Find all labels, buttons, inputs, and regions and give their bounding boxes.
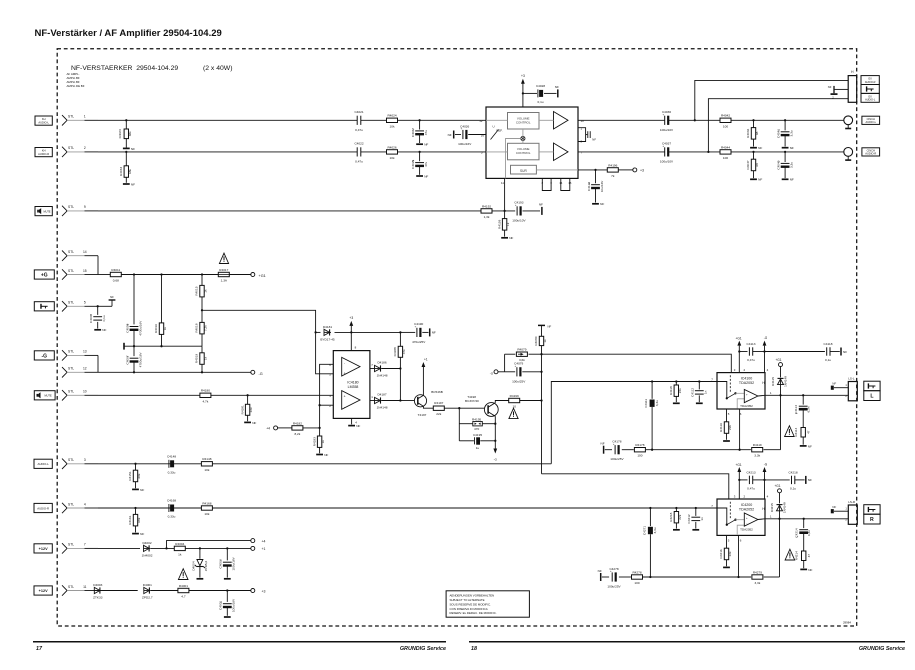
ground below R4214 <box>800 568 812 572</box>
capacitor C4148 <box>167 454 176 474</box>
svg-text:C4114: C4114 <box>794 405 798 414</box>
svg-text:C4212: C4212 <box>687 514 691 523</box>
svg-text:C4008: C4008 <box>89 314 93 323</box>
resistor R4016 <box>154 275 167 347</box>
cinch jack AUDIO-R <box>844 148 853 161</box>
label box EX AUDIO-R <box>861 76 879 85</box>
zener diode D4003 <box>93 583 138 600</box>
svg-text:R4188: R4188 <box>393 347 397 356</box>
svg-text:D4187: D4187 <box>377 393 386 397</box>
svg-text:3: 3 <box>84 458 86 462</box>
svg-text:100u/10V: 100u/10V <box>512 218 526 222</box>
svg-text:-: - <box>746 398 747 402</box>
capacitor C4195 <box>459 433 495 450</box>
svg-text:NF: NF <box>324 453 328 457</box>
svg-text:4700u/16V: 4700u/16V <box>138 320 142 336</box>
svg-text:R4024: R4024 <box>387 114 396 118</box>
capacitor C4114 zobel <box>794 395 811 427</box>
resistor R4197 <box>433 401 444 416</box>
svg-text:100u/16V: 100u/16V <box>232 598 236 612</box>
diode D4002 <box>142 541 175 558</box>
svg-text:18: 18 <box>471 646 477 652</box>
svg-text:AENDERUNGEN VORBEHALTEN: AENDERUNGEN VORBEHALTEN <box>450 594 495 598</box>
svg-text:+G1: +G1 <box>774 484 780 488</box>
svg-text:100u/16V: 100u/16V <box>458 142 472 146</box>
IC4100 pin5 resistor R4116 <box>719 409 732 440</box>
svg-text:+12V: +12V <box>39 547 48 551</box>
resistor R4181 <box>240 395 253 421</box>
svg-text:+G: +G <box>41 272 48 278</box>
svg-text:0,33u: 0,33u <box>168 470 176 474</box>
capacitor C4168 <box>167 499 176 519</box>
wire STL3 <box>98 463 551 465</box>
resistor R4047 <box>746 151 759 178</box>
resistor R4183 <box>312 428 325 453</box>
svg-text:0,1u: 0,1u <box>825 358 831 362</box>
+G1 terminal <box>229 273 265 279</box>
svg-text:R4079: R4079 <box>517 348 526 352</box>
capacitor C4079 <box>505 354 542 383</box>
svg-text:22k: 22k <box>249 407 253 412</box>
IC4200 pin6 wire <box>738 535 740 577</box>
footer rule right <box>469 641 905 643</box>
connector +12V b <box>34 586 52 595</box>
capacitor C4022 <box>354 142 363 164</box>
speaker return cap R <box>831 505 849 514</box>
svg-text:R4044: R4044 <box>721 145 730 149</box>
wire STL2 input <box>98 151 486 153</box>
svg-text:14: 14 <box>83 250 87 254</box>
svg-text:68k: 68k <box>128 169 132 174</box>
ground below D4004 <box>197 578 204 580</box>
svg-text:C4168: C4168 <box>167 499 176 503</box>
svg-text:R4195: R4195 <box>472 418 481 422</box>
SUR output wire <box>536 169 607 171</box>
ground below C4027 <box>416 143 428 147</box>
svg-text:MUTE: MUTE <box>44 210 51 213</box>
svg-text:NF: NF <box>424 143 428 147</box>
ground below C4212 <box>692 529 699 531</box>
svg-text:C4040: C4040 <box>777 160 781 169</box>
capacitor C4190 <box>400 322 428 344</box>
IC4200 internals <box>717 502 744 535</box>
label box L <box>864 391 880 401</box>
svg-text:C4218: C4218 <box>788 470 797 474</box>
NF terminal right of C4190 <box>430 328 436 336</box>
svg-text:GRUNDIG Service: GRUNDIG Service <box>400 646 446 652</box>
svg-text:NF-Verstärker / AF Amplifier 2: NF-Verstärker / AF Amplifier 29504-104.2… <box>35 28 222 39</box>
buffer amp 1 <box>486 112 568 130</box>
wire feedback riser L <box>780 395 782 449</box>
wire pin2 stub <box>320 404 334 406</box>
svg-text:11: 11 <box>501 181 504 185</box>
svg-text:+4: +4 <box>266 427 270 431</box>
resistor R4192 <box>481 204 492 219</box>
volume IC pin 11 wire <box>504 178 506 211</box>
IC4100 pin labels <box>711 368 772 416</box>
svg-text:4,7k: 4,7k <box>202 399 208 403</box>
svg-text:2: 2 <box>84 146 86 150</box>
connector pin STL 4 <box>62 502 98 513</box>
svg-text:1N4148: 1N4148 <box>377 405 388 409</box>
ground below R4216 <box>723 566 730 568</box>
svg-text:-G: -G <box>494 457 498 461</box>
svg-text:+1: +1 <box>262 547 266 551</box>
svg-text:AUDIO-L: AUDIO-L <box>37 462 49 466</box>
volume control block 2 <box>508 143 540 160</box>
pins 1-8 external bracket with capacitor <box>578 128 596 142</box>
svg-text:C4036: C4036 <box>662 110 671 114</box>
connector +12V a <box>34 544 52 553</box>
svg-text:(2 x 40W): (2 x 40W) <box>203 65 232 72</box>
svg-text:10k: 10k <box>204 468 209 472</box>
svg-text:1n: 1n <box>700 517 704 521</box>
transistor T4198 <box>465 395 498 416</box>
svg-text:470u/25V: 470u/25V <box>412 340 426 344</box>
capacitor C4041 <box>777 119 794 146</box>
node row1 / capacitor C4027 <box>411 119 428 143</box>
ground below C4041 <box>782 146 794 150</box>
svg-text:12: 12 <box>479 119 483 123</box>
svg-text:STL: STL <box>68 301 74 305</box>
SUR block <box>511 165 537 174</box>
svg-text:0,1u: 0,1u <box>537 100 543 104</box>
op-amp A <box>342 357 360 376</box>
resistor R4033 <box>119 151 132 183</box>
svg-text:R4042: R4042 <box>721 114 730 118</box>
svg-text:TDA2052: TDA2052 <box>740 527 753 531</box>
resistor R4026 <box>387 145 398 160</box>
svg-text:T4197: T4197 <box>418 413 427 417</box>
ground below C4004 <box>224 578 231 580</box>
wire to headphone L <box>694 80 849 121</box>
capacitor C4193 <box>512 201 540 223</box>
NF terminal right of C4218 <box>806 476 812 484</box>
svg-text:11: 11 <box>83 585 87 589</box>
resistor R4114 <box>794 427 811 444</box>
pins 14-15 bracket <box>561 178 570 190</box>
connector pin STL 12 <box>62 367 98 378</box>
connector AUDIO-L <box>34 459 52 468</box>
svg-text:NF: NF <box>828 85 832 89</box>
svg-text:STL: STL <box>68 250 74 254</box>
svg-text:NF-VERSTAERKER 29504-104.29: NF-VERSTAERKER 29504-104.29 <box>71 65 178 72</box>
wire feedback R <box>602 576 780 578</box>
resistor R4180 <box>200 389 211 404</box>
capacitor C4213 <box>739 470 764 490</box>
svg-text:C4028: C4028 <box>536 84 545 88</box>
capacitor C4118 <box>765 342 840 362</box>
svg-text:C4005: C4005 <box>125 323 129 332</box>
power amp IC4200 outline <box>717 499 765 535</box>
svg-text:AUDIO-L: AUDIO-L <box>865 99 876 102</box>
warning triangle left of R4114 <box>785 426 795 437</box>
wire STL9 <box>98 210 482 212</box>
svg-text:R4080: R4080 <box>534 336 538 345</box>
svg-text:D4001: D4001 <box>143 583 152 587</box>
svg-text:6,3n: 6,3n <box>806 406 810 412</box>
IC4100 pin6 wire <box>739 409 741 450</box>
resistor R4018 <box>195 309 208 346</box>
connector TV MUTE <box>35 207 52 216</box>
resistor R4182 <box>277 421 319 436</box>
IC4100 amp triangle <box>740 390 765 408</box>
svg-text:NF: NF <box>140 488 144 492</box>
footer page 17 <box>36 646 43 652</box>
svg-text:C4041: C4041 <box>777 129 781 138</box>
connector pin STL 1 <box>62 115 98 126</box>
svg-text:R4148: R4148 <box>202 457 211 461</box>
capacitor C4194 <box>587 170 604 203</box>
svg-text:100: 100 <box>634 581 639 585</box>
svg-text:8,2k: 8,2k <box>294 432 300 436</box>
svg-text:100u/16V: 100u/16V <box>232 556 236 570</box>
wire mute to IC4200 pin3 <box>542 474 729 499</box>
svg-text:3,3u: 3,3u <box>655 400 659 406</box>
svg-text:CONTROL: CONTROL <box>516 120 531 124</box>
wire IC4100 output <box>765 394 848 396</box>
document number <box>843 620 851 624</box>
svg-text:AUDIO-L: AUDIO-L <box>865 120 876 124</box>
resistor R4011 <box>110 268 121 283</box>
capacitor C4021 <box>354 110 363 132</box>
op-amp IC4180 supply pin 8 <box>351 332 356 350</box>
svg-text:C4079: C4079 <box>514 362 523 366</box>
svg-text:0,47u: 0,47u <box>747 358 755 362</box>
capacitor C4004 <box>219 548 236 577</box>
volume control block 1 <box>508 113 540 130</box>
svg-text:C4271: C4271 <box>642 526 646 535</box>
IC4200 amp triangle <box>740 513 765 531</box>
resistor R4278 <box>632 570 643 585</box>
svg-text:STL: STL <box>68 205 74 209</box>
svg-text:R: R <box>870 517 874 523</box>
resistor R4080 <box>534 336 547 345</box>
capacitor C4026 on REF pin <box>455 124 486 146</box>
svg-text:+4: +4 <box>262 539 266 543</box>
svg-text:TDA2052: TDA2052 <box>740 404 753 408</box>
mid rail ground bar <box>123 343 125 350</box>
wire T4197 emitter <box>423 406 433 408</box>
svg-text:NF: NF <box>252 421 256 425</box>
svg-text:68k: 68k <box>137 517 141 522</box>
warning triangle rows 7-11 <box>178 569 188 580</box>
svg-text:NF: NF <box>808 568 812 572</box>
wire divider to comparator <box>202 310 333 374</box>
notice box <box>446 591 529 617</box>
svg-text:1n: 1n <box>704 390 708 394</box>
ground below C4025 <box>416 174 428 178</box>
+3 terminal above op-amp <box>349 316 353 332</box>
speaker return cap L <box>831 381 849 390</box>
svg-text:C4001: C4001 <box>219 601 223 610</box>
ground below R4183 <box>316 453 328 457</box>
IC4200 pin labels <box>711 495 772 543</box>
svg-text:SOUS RESERVE DE MODIFIC.: SOUS RESERVE DE MODIFIC. <box>450 602 492 606</box>
svg-text:-: - <box>746 522 747 526</box>
ground below C4001 <box>224 616 231 618</box>
NF stub above STL5 wire <box>109 295 116 306</box>
svg-text:R4118: R4118 <box>669 386 673 395</box>
resistor R4188 <box>393 332 406 368</box>
svg-text:NF: NF <box>832 505 836 509</box>
capacitor C4111 <box>644 382 659 450</box>
wire STL4 <box>98 507 717 509</box>
svg-text:0,47u: 0,47u <box>355 159 363 163</box>
svg-text:NF: NF <box>548 325 552 329</box>
connector -G <box>34 351 54 360</box>
connector pin STL 13 <box>62 350 98 361</box>
resistor R4004 <box>174 542 185 557</box>
svg-text:STL: STL <box>68 390 74 394</box>
+3 terminal above volume IC <box>521 74 525 84</box>
wire volume out L <box>578 119 844 121</box>
svg-text:C4111: C4111 <box>644 399 648 408</box>
svg-text:68k: 68k <box>128 131 132 136</box>
svg-text:5: 5 <box>84 301 86 305</box>
svg-text:+1: +1 <box>424 357 428 361</box>
wire to headphone R <box>707 99 848 153</box>
svg-text:29984: 29984 <box>843 620 851 624</box>
label box CINCH AUDIO-L <box>862 116 880 124</box>
svg-text:-G: -G <box>42 353 48 359</box>
svg-text:CON RISERVA DI MODIFICA: CON RISERVA DI MODIFICA <box>450 607 488 611</box>
svg-text:22k: 22k <box>436 412 441 416</box>
svg-text:-: - <box>344 361 345 365</box>
svg-text:NF: NF <box>110 295 114 299</box>
svg-text:AUDIO-R: AUDIO-R <box>865 81 876 84</box>
-G terminal below T4198 <box>493 449 497 462</box>
svg-text:AMPLI.DE BF: AMPLI.DE BF <box>67 84 85 88</box>
warning triangle left of R4214 <box>785 549 795 560</box>
svg-text:TDA2052: TDA2052 <box>739 381 754 385</box>
svg-text:C4178: C4178 <box>612 440 621 444</box>
+1 terminal <box>251 546 266 551</box>
U REF internal reference <box>491 125 503 140</box>
svg-text:1,3A: 1,3A <box>221 279 228 283</box>
wire STL14 to STL15 <box>97 256 99 275</box>
svg-text:68: 68 <box>755 163 759 167</box>
svg-text:BYD17-45: BYD17-45 <box>320 338 335 342</box>
svg-text:0,47u: 0,47u <box>747 486 755 490</box>
svg-text:C4118: C4118 <box>824 342 833 346</box>
svg-text:R4033: R4033 <box>119 167 123 176</box>
capacitor C4028 <box>523 84 557 104</box>
svg-text:R4199: R4199 <box>510 394 519 398</box>
capacitor C4005 <box>125 275 142 347</box>
wire +4 branch <box>167 541 252 549</box>
diode D4186 <box>375 361 401 378</box>
ground below R4161 <box>132 532 144 536</box>
svg-text:1,3k: 1,3k <box>484 215 490 219</box>
connector AUDIO-R <box>34 503 52 512</box>
resistor R4044 <box>720 145 731 160</box>
connector pin STL 10 <box>62 390 98 401</box>
svg-text:100u/10V: 100u/10V <box>660 159 674 163</box>
+G1 terminal and diode D4215 <box>770 484 786 519</box>
svg-text:12: 12 <box>83 367 87 371</box>
svg-text:BC337/40: BC337/40 <box>465 399 479 403</box>
svg-text:NF: NF <box>131 147 135 151</box>
ground below R4181 <box>244 421 256 425</box>
resistor R4015 <box>195 275 208 311</box>
connector pin STL 7 <box>62 543 98 554</box>
wire STL5 <box>97 305 112 307</box>
svg-text:NF: NF <box>102 328 106 332</box>
svg-text:R4216: R4216 <box>719 549 723 558</box>
svg-text:MUTE: MUTE <box>45 395 52 398</box>
resistor R4079 <box>505 348 542 363</box>
resistor R4046 <box>746 119 759 146</box>
capacitor C4113 <box>739 342 764 362</box>
capacitor C4036 <box>660 110 674 132</box>
label box R <box>864 514 880 524</box>
connector MUTE <box>34 391 55 400</box>
wire diode junction <box>399 367 414 401</box>
-G terminal above IC4200 <box>763 462 768 499</box>
wire mute bus vertical <box>540 346 542 474</box>
svg-text:D4002: D4002 <box>142 541 151 545</box>
svg-text:NF: NF <box>432 331 436 335</box>
resistor R4023 <box>118 119 132 147</box>
warning triangle below R4199 <box>509 408 518 418</box>
connector KH AUDIO-R <box>35 148 52 157</box>
svg-text:R4015: R4015 <box>195 286 199 295</box>
svg-text:R4018: R4018 <box>195 323 199 332</box>
connector pin STL 14 <box>62 250 98 261</box>
ground below C4008 <box>94 328 106 332</box>
svg-text:NF: NF <box>539 203 543 207</box>
svg-text:NF: NF <box>140 532 144 536</box>
svg-text:-G: -G <box>259 372 263 376</box>
svg-text:GRUNDIG Service: GRUNDIG Service <box>859 646 905 652</box>
NF terminal above R4080 <box>538 325 552 337</box>
connector pin STL 3 <box>62 458 98 469</box>
svg-text:STL: STL <box>68 269 74 273</box>
svg-text:ZPD2,7: ZPD2,7 <box>142 596 153 600</box>
capacitor C4178 <box>610 440 624 462</box>
svg-text:R4047: R4047 <box>746 160 750 169</box>
svg-text:U: U <box>492 125 494 129</box>
svg-text:1u: 1u <box>476 446 480 450</box>
ground below R4151 <box>132 488 144 492</box>
svg-text:10: 10 <box>512 405 516 409</box>
resistor R4193 <box>497 211 510 237</box>
capacitor C4278 <box>607 567 621 589</box>
svg-text:1N4148: 1N4148 <box>377 373 388 377</box>
svg-text:15: 15 <box>83 269 87 273</box>
svg-text:NF: NF <box>592 138 596 142</box>
svg-text:D4003: D4003 <box>93 583 102 587</box>
svg-text:R4023: R4023 <box>118 129 122 138</box>
svg-text:R4168: R4168 <box>202 501 211 505</box>
svg-text:0,1u: 0,1u <box>790 486 796 490</box>
resistor R4161 <box>128 508 141 532</box>
label box EX AUDIO-L <box>861 93 879 102</box>
svg-text:3,3u: 3,3u <box>790 130 794 136</box>
svg-text:R4218: R4218 <box>669 512 673 521</box>
warning triangle above R4017 <box>219 253 228 263</box>
diode D4181 <box>316 325 402 342</box>
NF terminal right of C4118 <box>841 348 847 356</box>
svg-text:3,3u: 3,3u <box>790 162 794 168</box>
capacitor C4007 <box>125 346 142 372</box>
svg-text:+3: +3 <box>521 74 525 78</box>
+3 terminal right of R4196 <box>618 168 644 173</box>
resistor R4214 <box>794 551 811 568</box>
svg-text:NF: NF <box>758 146 762 150</box>
connector headphone jack symbol <box>34 302 54 311</box>
